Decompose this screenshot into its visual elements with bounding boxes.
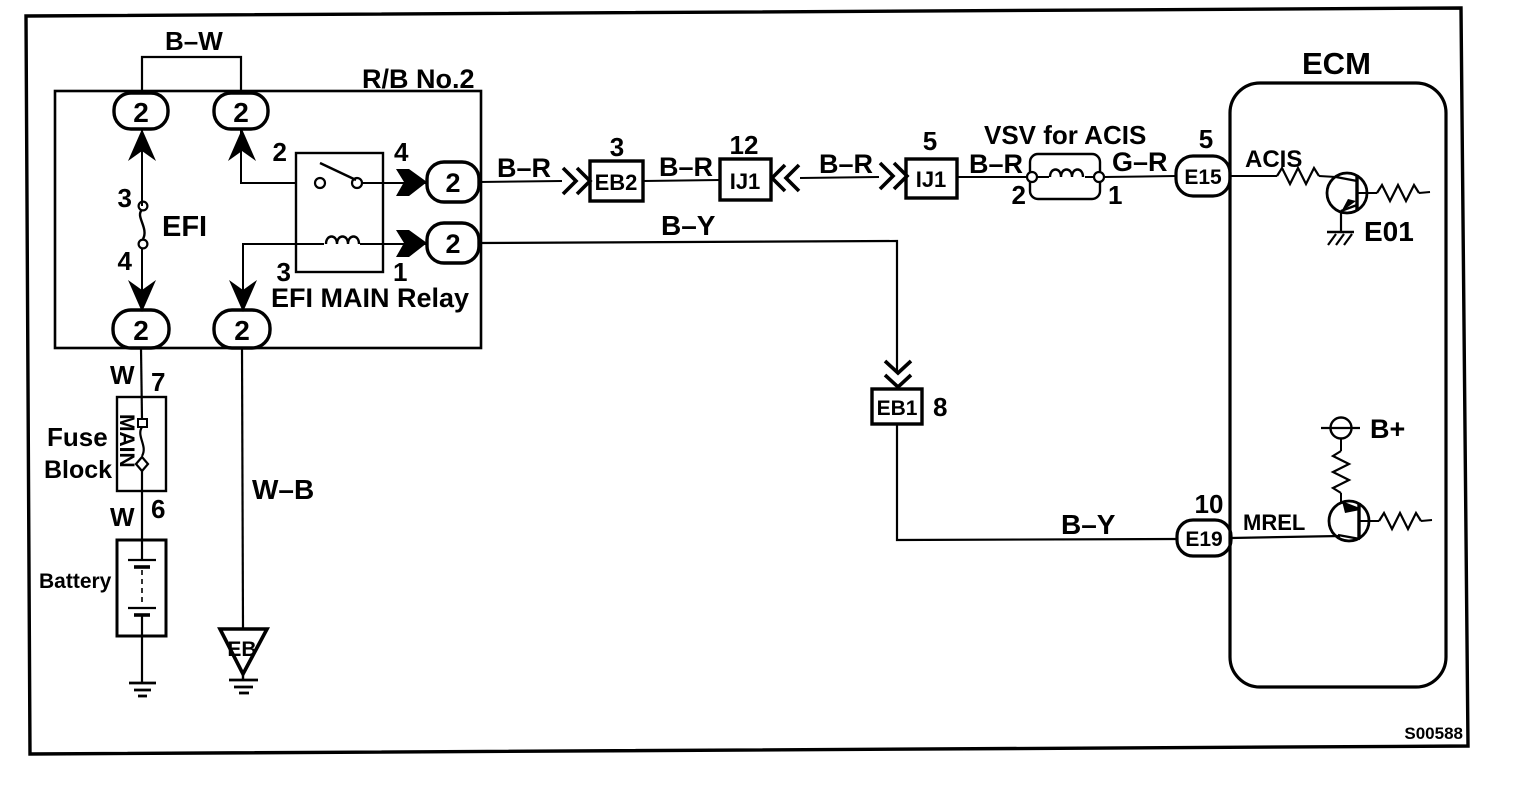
wire coil to connector B2	[243, 244, 296, 311]
resistor (ACIS line)	[1277, 168, 1319, 184]
junction IJ1 (5)	[906, 159, 957, 198]
svg-text:B+: B+	[1370, 414, 1405, 444]
transistor Q1	[1327, 173, 1367, 213]
svg-text:ECM: ECM	[1302, 46, 1371, 81]
svg-text:EB1: EB1	[877, 397, 918, 420]
ground (EB)	[229, 679, 258, 682]
svg-text:E01: E01	[1364, 216, 1414, 247]
svg-text:4: 4	[118, 246, 133, 276]
wire EB2 to IJ1	[643, 180, 720, 181]
junction EB1	[872, 389, 922, 424]
svg-text:5: 5	[923, 126, 937, 156]
base resistor Q2	[1359, 520, 1379, 522]
ground (battery)	[129, 682, 156, 685]
base resistor Q1	[1357, 192, 1377, 194]
fuse block box	[117, 397, 166, 491]
junction IJ1 (12)	[720, 159, 771, 200]
svg-text:B–W: B–W	[165, 26, 223, 56]
wire fuse block to battery	[141, 471, 143, 560]
chevrons into EB1	[885, 361, 911, 373]
connector 2 (bottom left)	[113, 310, 169, 348]
wire IJ1 to IJ1	[800, 177, 879, 178]
svg-text:6: 6	[151, 494, 165, 524]
svg-text:S00588: S00588	[1404, 724, 1463, 743]
ground EB triangle	[220, 629, 267, 674]
wire VSV to E15	[1104, 176, 1176, 177]
fuse symbol in fuse block	[138, 419, 147, 427]
svg-text:8: 8	[933, 392, 947, 422]
svg-text:2: 2	[1012, 180, 1026, 210]
svg-text:Battery: Battery	[39, 570, 112, 593]
svg-text:3: 3	[118, 183, 132, 213]
transistor Q2	[1329, 501, 1369, 541]
svg-text:ACIS: ACIS	[1245, 146, 1302, 173]
arrow up (under second connector)	[228, 129, 256, 161]
relay coil	[296, 243, 324, 245]
svg-text:10: 10	[1195, 489, 1224, 519]
relay switch	[315, 178, 325, 188]
wire fuse to arrow	[141, 248, 143, 311]
battery plates	[128, 559, 156, 561]
svg-text:2: 2	[445, 168, 460, 198]
svg-text:R/B No.2: R/B No.2	[362, 64, 475, 94]
chevrons into EB2	[563, 168, 576, 194]
svg-text:E19: E19	[1185, 528, 1222, 551]
svg-text:3: 3	[610, 132, 624, 162]
pin E19	[1177, 520, 1231, 556]
svg-text:EB: EB	[227, 638, 256, 661]
chevrons into IJ1 (5)	[880, 163, 893, 189]
svg-text:G–R: G–R	[1112, 147, 1168, 177]
wire B-Y (bottom run)	[897, 424, 1177, 540]
svg-text:B–Y: B–Y	[1061, 509, 1116, 540]
junction EB2	[590, 161, 643, 201]
arrow down (above bottom-second connector)	[229, 280, 257, 312]
svg-text:12: 12	[730, 130, 759, 160]
B+ terminal	[1331, 418, 1352, 439]
wire B-Y (top run)	[479, 241, 897, 371]
wire IJ1 to VSV	[957, 176, 1028, 178]
svg-text:W–B: W–B	[252, 474, 314, 505]
connector 2 (bottom second)	[214, 310, 270, 348]
svg-text:2: 2	[273, 137, 287, 167]
svg-text:5: 5	[1199, 124, 1213, 154]
svg-text:Fuse: Fuse	[47, 422, 108, 452]
fuse EFI	[139, 202, 148, 211]
ground E01	[1327, 231, 1354, 233]
svg-text:1: 1	[1108, 180, 1122, 210]
wire W-B from connector to EB ground	[242, 348, 243, 629]
connector 2 (top left)	[114, 93, 168, 129]
wire E15 into ECM	[1230, 175, 1277, 177]
svg-text:EFI MAIN Relay: EFI MAIN Relay	[271, 283, 469, 313]
svg-text:B–R: B–R	[659, 152, 713, 182]
relay box	[296, 153, 383, 272]
svg-text:MREL: MREL	[1243, 510, 1305, 535]
R/B No.2 block	[55, 91, 481, 348]
svg-text:B–R: B–R	[819, 149, 873, 179]
svg-text:Block: Block	[44, 456, 112, 484]
wire to EFI fuse	[141, 129, 143, 206]
VSV for ACIS	[1030, 154, 1100, 199]
pin E15	[1176, 156, 1230, 196]
connector oval 2 (relay out top)	[427, 162, 479, 202]
svg-text:EFI: EFI	[162, 211, 207, 243]
svg-text:4: 4	[394, 137, 409, 167]
svg-text:B–Y: B–Y	[661, 210, 716, 241]
svg-text:2: 2	[133, 315, 149, 346]
arrow male (into oval O2)	[396, 230, 427, 257]
svg-text:EB2: EB2	[595, 170, 638, 195]
ECM block	[1230, 83, 1446, 687]
svg-text:E15: E15	[1184, 166, 1222, 189]
svg-text:W: W	[110, 360, 135, 390]
connector 2 (top second)	[214, 93, 268, 129]
wire E19 to Q2	[1231, 536, 1340, 538]
svg-text:2: 2	[445, 229, 460, 259]
svg-text:2: 2	[233, 97, 249, 128]
svg-text:2: 2	[234, 315, 250, 346]
connector oval 2 (relay out bottom)	[427, 223, 479, 263]
arrow male (into oval O1)	[396, 169, 427, 196]
wire from bottom-left connector to fuse block	[141, 348, 142, 419]
wire B-W bracket	[142, 57, 241, 93]
wire relay pin2 from second connector	[241, 129, 296, 183]
svg-text:VSV for ACIS: VSV for ACIS	[984, 120, 1146, 150]
svg-text:B–R: B–R	[497, 153, 551, 183]
chevrons out of IJ1	[772, 165, 785, 191]
battery box	[117, 540, 166, 636]
svg-text:MAIN: MAIN	[115, 414, 138, 468]
wire B-R to EB2	[479, 181, 562, 182]
svg-text:IJ1: IJ1	[730, 169, 761, 194]
svg-text:2: 2	[133, 97, 149, 128]
arrow down (above bottom-left connector)	[128, 280, 156, 312]
wire battery to ground	[141, 615, 143, 683]
svg-text:7: 7	[151, 367, 165, 397]
svg-text:W: W	[110, 502, 135, 532]
resistor from B+	[1340, 438, 1342, 451]
arrow up (under first connector)	[128, 129, 156, 161]
svg-text:B–R: B–R	[969, 149, 1023, 179]
svg-text:IJ1: IJ1	[916, 167, 947, 192]
